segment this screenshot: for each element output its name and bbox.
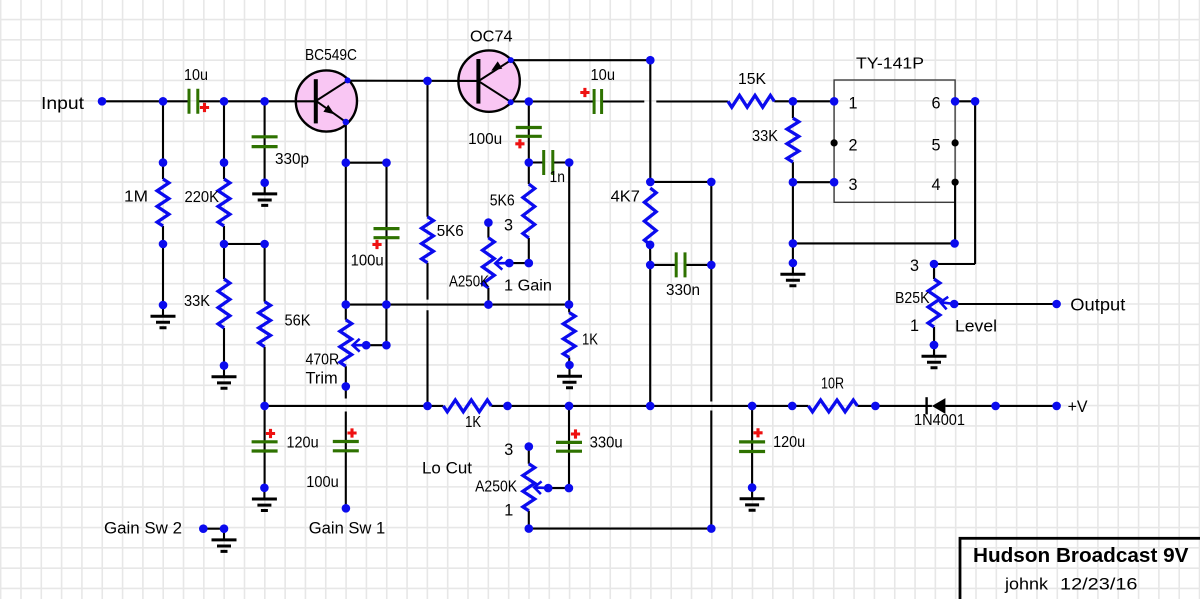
svg-text:Lo Cut: Lo Cut	[422, 459, 472, 478]
svg-text:220K: 220K	[185, 189, 220, 206]
svg-text:10u: 10u	[591, 67, 616, 84]
svg-text:1N4001: 1N4001	[914, 412, 965, 429]
svg-text:Trim: Trim	[306, 370, 338, 388]
svg-text:15K: 15K	[738, 71, 767, 88]
svg-text:4: 4	[932, 176, 941, 194]
svg-text:Level: Level	[955, 317, 997, 336]
svg-text:+V: +V	[1068, 397, 1089, 416]
svg-text:2: 2	[849, 136, 858, 154]
svg-text:A250K: A250K	[475, 479, 518, 496]
svg-text:1: 1	[504, 502, 513, 520]
svg-text:3: 3	[910, 257, 919, 275]
svg-text:BC549C: BC549C	[305, 47, 357, 64]
svg-text:10u: 10u	[184, 67, 208, 84]
svg-text:TY-141P: TY-141P	[856, 55, 924, 72]
svg-text:120u: 120u	[773, 434, 805, 451]
svg-text:100u: 100u	[468, 131, 502, 148]
svg-text:330u: 330u	[590, 435, 623, 452]
svg-text:6: 6	[932, 95, 941, 113]
svg-text:5K6: 5K6	[437, 223, 464, 240]
svg-text:56K: 56K	[285, 313, 312, 330]
svg-text:johnk: johnk	[1004, 575, 1049, 594]
svg-text:A250K: A250K	[449, 274, 490, 291]
svg-text:33K: 33K	[184, 293, 211, 310]
svg-text:Input: Input	[41, 93, 84, 113]
svg-text:120u: 120u	[287, 435, 319, 452]
svg-text:330p: 330p	[275, 151, 309, 168]
svg-text:1n: 1n	[550, 169, 566, 186]
svg-text:470R: 470R	[306, 352, 340, 369]
svg-text:Gain Sw 2: Gain Sw 2	[104, 519, 182, 538]
svg-text:Hudson Broadcast 9V: Hudson Broadcast 9V	[973, 544, 1189, 567]
svg-text:1K: 1K	[582, 332, 599, 349]
svg-text:12/23/16: 12/23/16	[1060, 575, 1138, 594]
svg-text:1M: 1M	[124, 189, 148, 206]
svg-text:Gain Sw 1: Gain Sw 1	[309, 519, 385, 538]
svg-text:1: 1	[910, 317, 919, 335]
svg-text:OC74: OC74	[470, 28, 513, 45]
svg-text:4K7: 4K7	[611, 189, 640, 206]
svg-text:1 Gain: 1 Gain	[504, 278, 552, 295]
svg-text:100u: 100u	[351, 253, 384, 270]
svg-text:B25K: B25K	[895, 290, 930, 307]
svg-text:3: 3	[849, 176, 858, 194]
svg-text:5K6: 5K6	[490, 193, 515, 210]
svg-text:3: 3	[504, 441, 513, 459]
svg-text:330n: 330n	[666, 282, 700, 299]
svg-text:33K: 33K	[752, 128, 779, 145]
svg-text:100u: 100u	[306, 474, 339, 491]
svg-text:5: 5	[932, 136, 941, 154]
svg-text:10R: 10R	[821, 376, 844, 393]
svg-text:1K: 1K	[465, 414, 482, 431]
svg-text:1: 1	[849, 95, 858, 113]
svg-text:3: 3	[504, 217, 513, 235]
svg-text:Output: Output	[1070, 295, 1125, 315]
